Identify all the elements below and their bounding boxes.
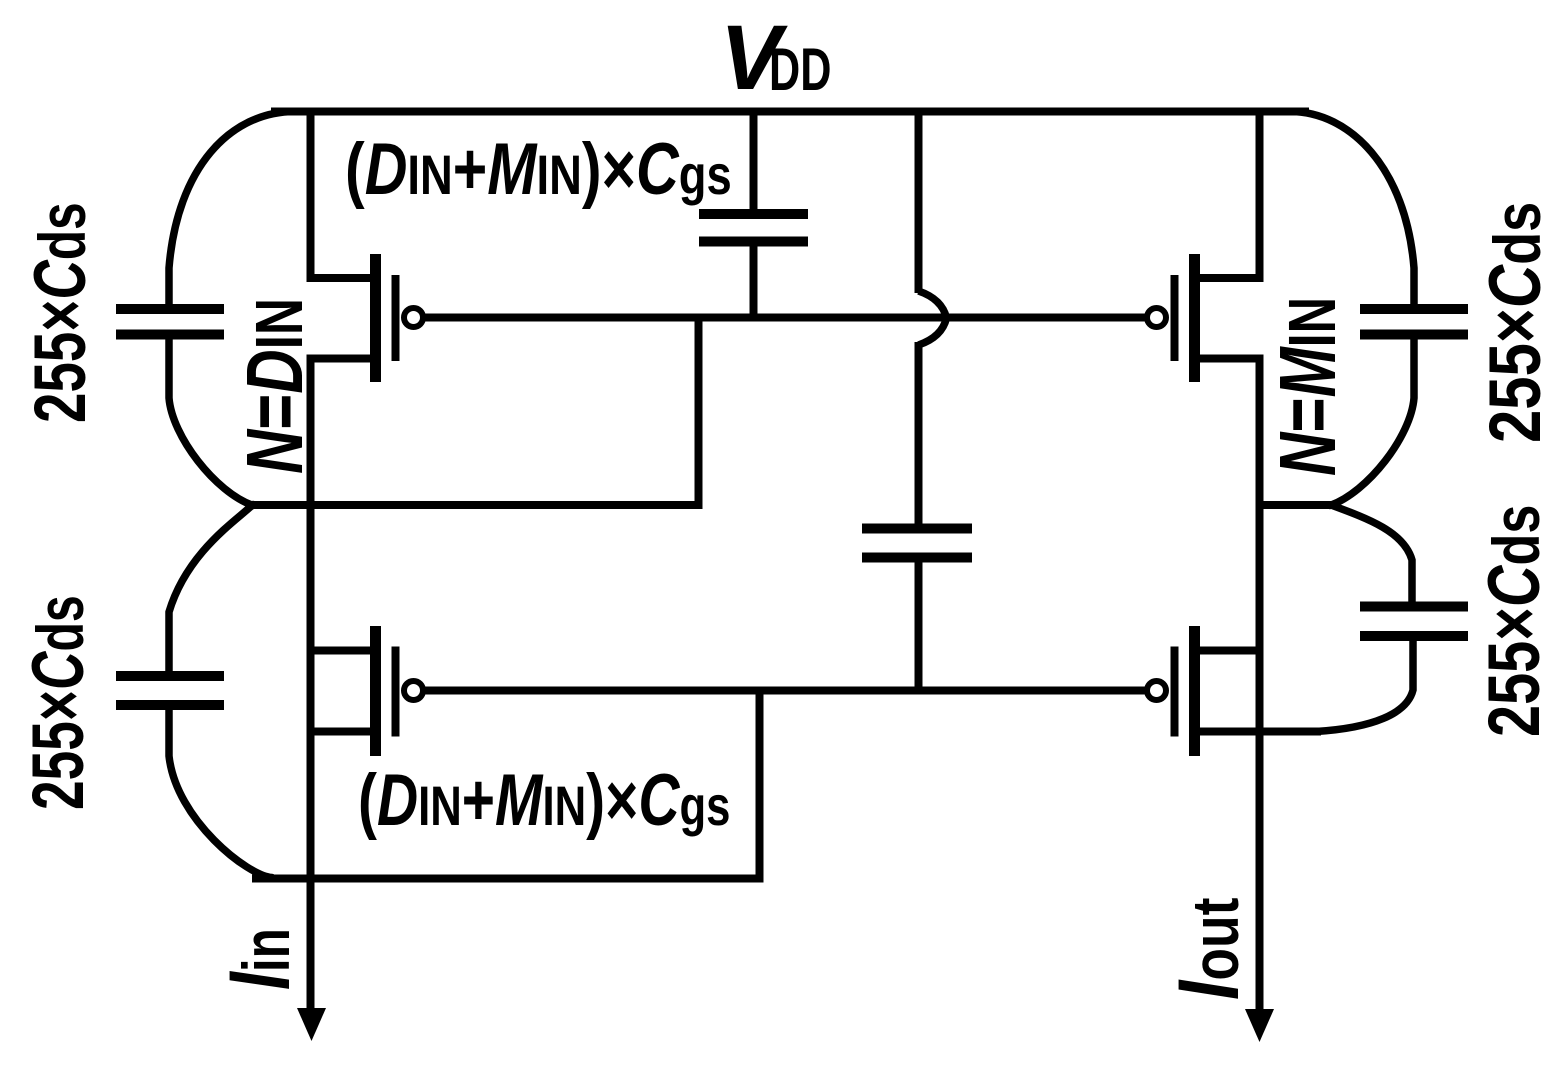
label (DIN+MIN)xCgs top (345, 129, 732, 210)
label 255xCds top-right (1475, 202, 1556, 443)
wire capacitor C2 bottom stem (915, 562, 923, 691)
capacitor C5 255xCds top-right: loop and plates (1290, 112, 1414, 506)
svg-text:255×Cds: 255×Cds (17, 595, 99, 810)
label N=MIN (1263, 297, 1352, 476)
wire M4 drain stub (1194, 728, 1321, 736)
svg-text:(DIN+MIN)×Cgs: (DIN+MIN)×Cgs (345, 129, 732, 210)
capacitor C4 255xCds bottom-left: loop and plates (169, 505, 272, 878)
label (DIN+MIN)xCgs bottom (358, 759, 730, 840)
label N=DIN (230, 298, 320, 474)
wire hop over gate bus (919, 291, 947, 345)
wire capacitor C1 bottom stem (750, 247, 758, 319)
label 255xCds top-left (19, 202, 100, 423)
wire M3 gate-drain link vertical (756, 691, 764, 879)
wire left vertical top (VDD to M1 source) (311, 112, 376, 279)
label Iin (212, 928, 308, 990)
node Iin arrowhead (297, 1008, 326, 1041)
wire M3 source stub (311, 647, 376, 655)
wire capacitor C1 top stem (750, 112, 758, 210)
svg-text:255×Cds: 255×Cds (1472, 505, 1554, 737)
svg-text:255×Cds: 255×Cds (19, 202, 100, 423)
transistor M4 (bottom-right PMOS) (1147, 626, 1195, 756)
capacitor C1 (DIN+MIN)xCgs plates (699, 214, 808, 242)
wire top gate bus (423, 314, 1146, 322)
wire left vertical main (M1 drain down to Iin) (311, 359, 376, 1014)
wire right vertical top (VDD to M2 source) (1194, 112, 1260, 279)
svg-text:Iin: Iin (212, 928, 308, 990)
label 255xCds bottom-left (17, 595, 99, 810)
label 255xCds bottom-right (1472, 505, 1554, 737)
transistor M1 (top-left PMOS) (376, 254, 424, 382)
svg-text:N=MIN: N=MIN (1263, 297, 1352, 476)
label Iout (1160, 898, 1257, 1000)
wire right vertical main (M2 drain down to Iout) (1194, 359, 1260, 1015)
wire M3 drain stub (311, 728, 376, 736)
wire bottom gate bus (423, 687, 1146, 695)
transistor M3 (bottom-left PMOS) (376, 626, 424, 756)
wire capacitor C2 top stem (915, 112, 923, 294)
transistor M2 (top-right PMOS) (1147, 254, 1195, 382)
svg-text:N=DIN: N=DIN (230, 298, 320, 474)
capacitor C2 (DIN+MIN)xCgs plates (center) (862, 529, 972, 558)
svg-text:(DIN+MIN)×Cgs: (DIN+MIN)×Cgs (358, 759, 730, 840)
wire M1 gate-drain link horizontal (252, 501, 703, 509)
wire M3 gate-drain link horizontal (252, 875, 764, 883)
svg-text:Iout: Iout (1160, 898, 1257, 1000)
svg-text:DD: DD (769, 37, 831, 104)
wire M1 gate-drain link vertical (695, 314, 703, 505)
wire M4 source stub (1194, 647, 1260, 655)
capacitor C6 255xCds bottom-right: loop and plates (1316, 505, 1413, 732)
svg-text:255×Cds: 255×Cds (1475, 202, 1556, 443)
wire capacitor C2 mid stem (915, 342, 923, 525)
node VDD rail (271, 108, 1309, 116)
capacitor C3 255xCds top-left: loop and plates (169, 112, 295, 506)
node Iout arrowhead (1245, 1009, 1274, 1042)
wire right mid stub (1260, 501, 1334, 509)
label VDD (720, 7, 831, 109)
